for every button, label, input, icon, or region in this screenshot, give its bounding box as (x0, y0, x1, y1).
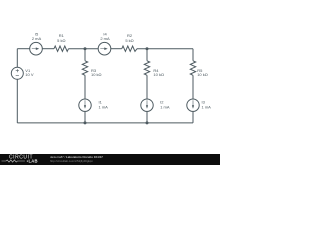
current source I2 circle (141, 99, 153, 111)
wire top between I5 and R1 (42, 48, 54, 50)
current source I4 circle (98, 42, 111, 55)
current source I3 circle (187, 99, 199, 111)
node junction top R4 (146, 47, 149, 50)
current source I2 arrow (146, 100, 149, 105)
svg-text:5 kΩ: 5 kΩ (125, 38, 133, 43)
svg-text:1 mA: 1 mA (99, 104, 109, 109)
wire R3 to I1 (84, 75, 86, 99)
current source I5 circle (30, 42, 43, 55)
wire top-left segment (17, 48, 29, 50)
watermark bar (0, 154, 220, 165)
resistor R3 body (82, 61, 87, 76)
svg-text:http://circuitlab.com/c/52jfty: http://circuitlab.com/c/52jftyb6gkpn (50, 159, 93, 163)
node junction bottom R3 (84, 121, 87, 124)
voltage source V1 minus sign (16, 75, 19, 77)
watermark logo resistor squiggle (2, 160, 25, 162)
wire I2 to bottom (146, 111, 148, 123)
wire I1 to bottom (84, 111, 86, 123)
svg-text:10 kΩ: 10 kΩ (197, 72, 208, 77)
wire left branch lower (16, 79, 18, 123)
wire left branch upper (16, 49, 18, 68)
node junction top R3 (84, 47, 87, 50)
wire R3 branch top lead (84, 49, 86, 61)
svg-text:1 mA: 1 mA (202, 104, 212, 109)
wire I3 to bottom (192, 111, 194, 123)
resistor R2 body (122, 46, 137, 51)
svg-text:10 kΩ: 10 kΩ (153, 72, 164, 77)
current source I5 arrow (32, 47, 36, 50)
resistor R4 body (144, 61, 149, 76)
wire bottom rail (17, 122, 193, 124)
current source I1 circle (79, 99, 91, 111)
wire top right from R2 to corner (137, 48, 193, 50)
node junction bottom R4 (146, 121, 149, 124)
current source I4 arrow (100, 47, 104, 50)
voltage source V1 circle (11, 67, 23, 79)
wire top between R1 and I4 (through node) (69, 48, 99, 50)
svg-text:▪LAB: ▪LAB (27, 159, 38, 164)
wire R5 to I3 (192, 75, 194, 99)
voltage source V1 plus sign (16, 69, 19, 76)
wire R4 branch top lead (146, 49, 148, 61)
svg-text:10 kΩ: 10 kΩ (91, 72, 102, 77)
svg-text:2 mA: 2 mA (100, 36, 110, 41)
current source I3 arrow (192, 100, 195, 105)
wire R5 branch top lead (192, 49, 194, 61)
resistor R1 body (54, 46, 69, 51)
wire R4 to I2 (146, 75, 148, 99)
wire top between I4 and R2 (111, 48, 122, 50)
resistor R5 body (190, 61, 195, 76)
svg-text:2 mA: 2 mA (32, 36, 42, 41)
svg-text:10 V: 10 V (25, 72, 34, 77)
svg-text:5 kΩ: 5 kΩ (57, 38, 65, 43)
current source I1 arrow (84, 100, 87, 105)
svg-text:1 mA: 1 mA (160, 104, 170, 109)
